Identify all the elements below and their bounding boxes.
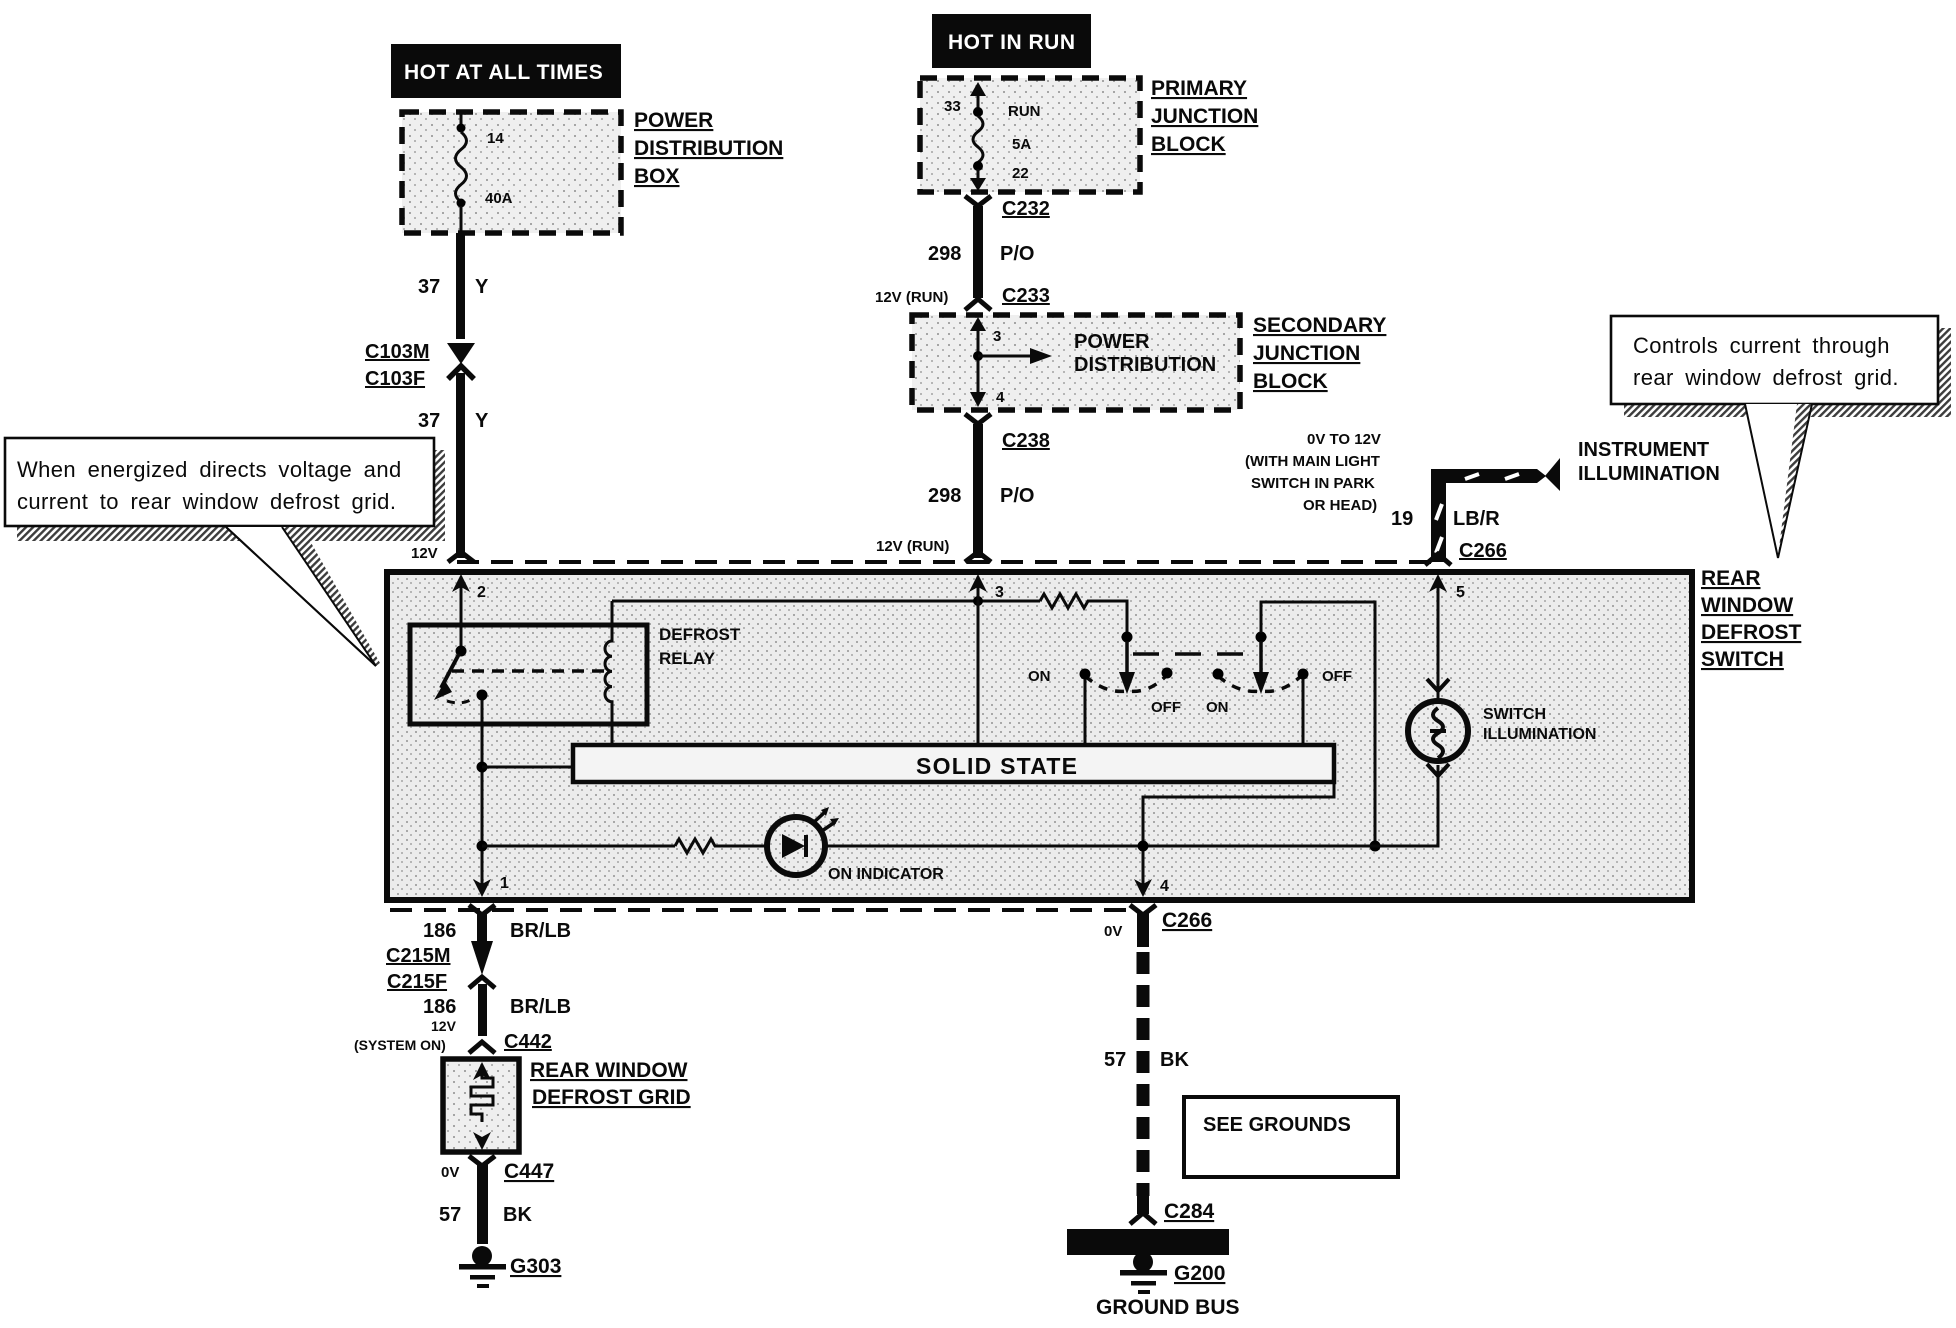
svg-text:DEFROST: DEFROST <box>659 625 741 644</box>
svg-text:REAR WINDOW: REAR WINDOW <box>530 1059 688 1082</box>
svg-text:OFF: OFF <box>1322 668 1352 685</box>
svg-text:ON INDICATOR: ON INDICATOR <box>828 866 944 883</box>
svg-text:3: 3 <box>995 584 1004 601</box>
svg-text:C215F: C215F <box>387 971 447 993</box>
svg-text:3: 3 <box>993 328 1001 345</box>
svg-text:OR HEAD): OR HEAD) <box>1303 497 1377 514</box>
svg-text:(SYSTEM ON): (SYSTEM ON) <box>354 1037 446 1053</box>
svg-text:When energized directs voltage: When energized directs voltage and <box>17 457 402 482</box>
svg-text:RUN: RUN <box>1008 103 1041 120</box>
svg-text:SOLID STATE: SOLID STATE <box>916 753 1077 779</box>
svg-text:19: 19 <box>1391 508 1413 530</box>
svg-text:DISTRIBUTION: DISTRIBUTION <box>634 137 783 160</box>
svg-text:40A: 40A <box>485 190 513 207</box>
svg-text:C233: C233 <box>1002 285 1050 307</box>
svg-text:14: 14 <box>487 130 504 147</box>
svg-text:0V: 0V <box>441 1164 459 1181</box>
svg-text:P/O: P/O <box>1000 243 1034 265</box>
svg-text:37: 37 <box>418 276 440 298</box>
svg-text:57: 57 <box>439 1204 461 1226</box>
svg-text:37: 37 <box>418 410 440 432</box>
svg-text:current to rear window defros: current to rear window defrost grid. <box>17 489 396 514</box>
svg-text:0V: 0V <box>1104 923 1122 940</box>
svg-text:4: 4 <box>1160 878 1169 895</box>
svg-text:WINDOW: WINDOW <box>1701 594 1793 617</box>
svg-text:C266: C266 <box>1459 540 1507 562</box>
svg-text:C103F: C103F <box>365 368 425 390</box>
svg-text:22: 22 <box>1012 165 1029 182</box>
svg-text:LB/R: LB/R <box>1453 508 1500 530</box>
svg-text:rear window defrost grid.: rear window defrost grid. <box>1633 365 1899 390</box>
svg-text:ON: ON <box>1028 668 1051 685</box>
svg-text:1: 1 <box>500 875 509 892</box>
svg-text:C215M: C215M <box>386 945 450 967</box>
svg-text:GROUND BUS: GROUND BUS <box>1096 1296 1240 1319</box>
svg-text:2: 2 <box>477 584 486 601</box>
svg-text:C284: C284 <box>1164 1200 1215 1223</box>
svg-text:298: 298 <box>928 243 961 265</box>
svg-text:SWITCH IN PARK: SWITCH IN PARK <box>1251 475 1375 492</box>
svg-text:BK: BK <box>503 1204 532 1226</box>
svg-text:POWER: POWER <box>1074 331 1150 353</box>
svg-text:G200: G200 <box>1174 1262 1225 1285</box>
svg-text:DISTRIBUTION: DISTRIBUTION <box>1074 354 1216 376</box>
svg-text:SWITCH: SWITCH <box>1701 648 1784 671</box>
svg-text:Y: Y <box>475 410 489 432</box>
svg-text:ON: ON <box>1206 699 1229 716</box>
svg-text:PRIMARY: PRIMARY <box>1151 77 1247 100</box>
svg-text:OFF: OFF <box>1151 699 1181 716</box>
svg-text:BLOCK: BLOCK <box>1151 133 1226 156</box>
svg-text:C103M: C103M <box>365 341 429 363</box>
svg-text:Controls current through: Controls current through <box>1633 333 1890 358</box>
svg-text:186: 186 <box>423 996 456 1018</box>
svg-text:C447: C447 <box>504 1160 554 1183</box>
svg-text:BR/LB: BR/LB <box>510 920 571 942</box>
svg-text:5A: 5A <box>1012 136 1031 153</box>
svg-text:57: 57 <box>1104 1049 1126 1071</box>
svg-text:ILLUMINATION: ILLUMINATION <box>1578 463 1720 485</box>
svg-text:BOX: BOX <box>634 165 680 188</box>
svg-text:JUNCTION: JUNCTION <box>1253 342 1360 365</box>
svg-text:0V TO 12V: 0V TO 12V <box>1307 431 1381 448</box>
svg-text:(WITH MAIN LIGHT: (WITH MAIN LIGHT <box>1245 453 1380 470</box>
svg-text:JUNCTION: JUNCTION <box>1151 105 1258 128</box>
svg-text:ILLUMINATION: ILLUMINATION <box>1483 726 1596 743</box>
svg-text:33: 33 <box>944 98 961 115</box>
svg-text:C232: C232 <box>1002 198 1050 220</box>
svg-text:DEFROST: DEFROST <box>1701 621 1802 644</box>
svg-text:298: 298 <box>928 485 961 507</box>
svg-text:HOT AT ALL TIMES: HOT AT ALL TIMES <box>404 61 603 84</box>
svg-text:C266: C266 <box>1162 909 1212 932</box>
svg-text:INSTRUMENT: INSTRUMENT <box>1578 439 1709 461</box>
svg-text:BR/LB: BR/LB <box>510 996 571 1018</box>
svg-text:SEE GROUNDS: SEE GROUNDS <box>1203 1114 1351 1136</box>
svg-text:12V (RUN): 12V (RUN) <box>876 538 949 555</box>
svg-text:RELAY: RELAY <box>659 649 716 668</box>
svg-text:SECONDARY: SECONDARY <box>1253 314 1386 337</box>
svg-text:REAR: REAR <box>1701 567 1761 590</box>
svg-text:POWER: POWER <box>634 109 713 132</box>
svg-text:SWITCH: SWITCH <box>1483 706 1546 723</box>
svg-text:BLOCK: BLOCK <box>1253 370 1328 393</box>
svg-text:12V (RUN): 12V (RUN) <box>875 289 948 306</box>
svg-text:186: 186 <box>423 920 456 942</box>
svg-text:12V: 12V <box>431 1018 457 1034</box>
svg-text:12V: 12V <box>411 545 438 562</box>
svg-text:C238: C238 <box>1002 430 1050 452</box>
svg-text:C442: C442 <box>504 1031 552 1053</box>
svg-text:P/O: P/O <box>1000 485 1034 507</box>
svg-text:Y: Y <box>475 276 489 298</box>
svg-text:G303: G303 <box>510 1255 561 1278</box>
svg-text:DEFROST GRID: DEFROST GRID <box>532 1086 691 1109</box>
svg-text:5: 5 <box>1456 584 1465 601</box>
svg-text:BK: BK <box>1160 1049 1189 1071</box>
svg-text:HOT IN RUN: HOT IN RUN <box>948 31 1076 54</box>
svg-text:4: 4 <box>996 389 1005 406</box>
